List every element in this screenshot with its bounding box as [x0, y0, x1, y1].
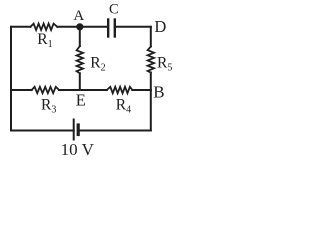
svg-text:10 V: 10 V — [61, 140, 95, 159]
battery 10 V — [74, 120, 79, 140]
resistor R3 — [32, 87, 59, 93]
wire bottom right segment (corner to battery) — [78, 130, 151, 132]
resistor R1 — [31, 24, 58, 30]
wire middle left segment (left edge to R3) — [11, 89, 32, 91]
capacitor C — [108, 20, 115, 37]
svg-text:R5: R5 — [157, 55, 172, 74]
resistor R2 — [77, 46, 83, 73]
svg-text:A: A — [73, 8, 84, 24]
wire branch A to R2 — [79, 27, 81, 46]
svg-text:B: B — [153, 82, 164, 101]
wire middle segment (node E to R4) — [80, 89, 107, 91]
resistor R5 — [148, 47, 154, 73]
svg-text:R3: R3 — [41, 97, 56, 116]
wire left edge (top corner to bottom corner) — [10, 27, 12, 131]
wire right branch (R5 to node B) — [150, 73, 152, 91]
svg-text:R4: R4 — [116, 97, 131, 116]
svg-text:E: E — [76, 90, 86, 109]
wire middle segment (R3 to node E) — [59, 89, 80, 91]
wire middle segment (R4 to node B) — [132, 89, 151, 91]
svg-text:R2: R2 — [90, 55, 105, 74]
svg-text:D: D — [154, 17, 166, 36]
resistor R4 — [107, 87, 133, 93]
wire right branch upper (D corner down to R5) — [150, 27, 152, 47]
wire segment (capacitor C to corner D) — [116, 26, 151, 28]
wire top segment (R1 to node A) — [57, 26, 80, 28]
wire right branch lower (node B to bottom corner) — [150, 90, 152, 131]
wire branch R2 to node E — [79, 73, 81, 90]
wire segment (node A to capacitor C) — [80, 26, 107, 28]
wire top-left segment (left corner to R1) — [11, 26, 31, 28]
svg-text:R1: R1 — [37, 31, 52, 50]
svg-text:C: C — [109, 2, 119, 18]
node A — [73, 8, 84, 31]
wire bottom left segment (battery to left corner) — [11, 130, 74, 132]
